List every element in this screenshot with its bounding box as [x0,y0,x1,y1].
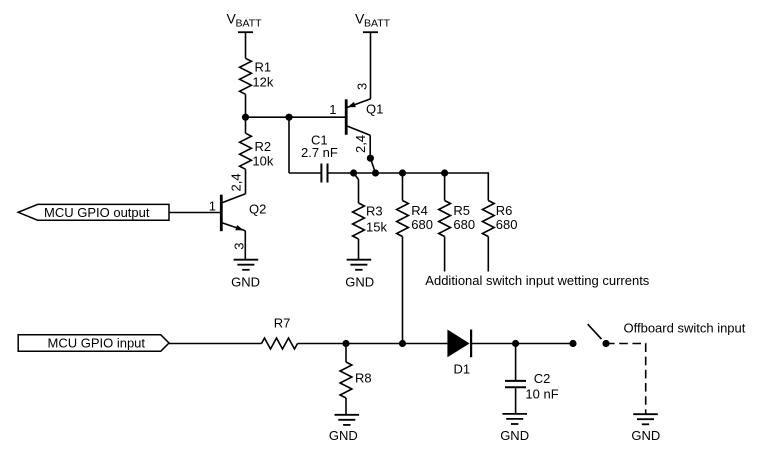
node switch left terminal [569,340,576,347]
wire Q1 collector diagonal to bus [370,158,375,173]
node Q1 collector bend [367,155,374,162]
wire node to Q1 base [289,116,346,118]
svg-text:3: 3 [231,242,246,249]
svg-text:GND: GND [329,428,358,443]
svg-text:Additional switch input wettin: Additional switch input wetting currents [425,273,650,288]
svg-text:Q1: Q1 [366,102,383,117]
svg-text:Offboard switch input: Offboard switch input [624,321,746,336]
svg-text:R4: R4 [411,203,428,218]
svg-text:GND: GND [500,428,529,443]
svg-text:2,4: 2,4 [228,173,243,191]
node junction R8 [342,340,349,347]
svg-text:C2: C2 [534,371,551,386]
ground offboard [633,414,658,424]
svg-text:R3: R3 [366,204,383,219]
svg-text:R5: R5 [453,203,470,218]
diode D1 [447,330,471,358]
node junction bus R3 [350,169,357,176]
value label R5 680 [453,203,475,232]
wire node to C1 branch [246,116,290,118]
wire R7 to R8 node [298,343,347,345]
svg-text:15k: 15k [366,220,387,235]
wire Q1 collector down [369,135,371,158]
node switch right terminal [602,340,609,347]
power symbol VBATT right [363,32,378,99]
wire output tag to Q2 base [169,212,221,214]
svg-text:3: 3 [355,83,370,90]
resistor R1 [240,58,252,94]
resistor R3 [353,173,365,260]
resistor R4 [397,173,409,237]
transistor Q2 [221,194,245,231]
svg-text:R6: R6 [496,203,513,218]
wire C1 right lead to bus [329,172,354,174]
port tag MCU GPIO input [18,335,169,351]
wire R8 node to R4 node [346,343,403,345]
wire R4 down to input bus [402,237,404,344]
svg-text:1: 1 [209,199,216,214]
wire C1 branch down [288,117,290,173]
resistor R7 [262,338,298,349]
value label C2 10 nF [525,371,558,401]
capacitor C2 [505,344,526,414]
wire dashed switch to offboard [606,344,646,415]
value label R1 12k [252,60,273,90]
switch blade [588,324,602,339]
svg-text:1: 1 [329,102,336,117]
svg-text:R2: R2 [255,139,272,154]
svg-text:680: 680 [453,217,475,232]
resistor R2 [240,117,252,194]
wire C1 left lead [289,172,321,174]
svg-text:R8: R8 [355,370,372,385]
wire input tag to R7 [169,343,262,345]
capacitor C1 [321,164,327,183]
svg-text:D1: D1 [454,362,471,377]
svg-text:10k: 10k [252,154,273,169]
ground under R8 [335,415,360,425]
svg-text:BATT: BATT [364,18,391,30]
node junction C1 branch [285,114,292,121]
svg-text:10 nF: 10 nF [525,386,558,401]
resistor R8 [340,344,352,415]
svg-text:MCU GPIO output: MCU GPIO output [44,205,150,220]
svg-text:2.7 nF: 2.7 nF [301,145,338,160]
value label C1 2.7 nF [301,133,338,161]
svg-text:GND: GND [345,274,374,289]
wire C2 node to switch terminal [516,343,573,345]
ground under R3 [347,260,372,270]
resistor R6 [482,201,494,272]
node junction R4 bottom [399,340,406,347]
wire Q2 emitter down [244,231,246,260]
value label R3 15k [366,204,387,235]
node junction bus R5 [441,169,448,176]
node junction bus R4 [399,169,406,176]
wire D1 cathode to C2 node [471,343,515,345]
value label R6 680 [496,203,518,232]
power symbol VBATT left [238,32,253,58]
node junction R1/R2/base row [242,114,249,121]
node junction C2 [512,340,519,347]
wire bus R5 to R6 corner [445,173,489,201]
net label VBATT right [355,11,391,30]
resistor R5 [439,173,451,272]
svg-text:12k: 12k [252,75,273,90]
svg-text:BATT: BATT [236,18,263,30]
svg-text:MCU GPIO input: MCU GPIO input [48,335,146,350]
svg-text:680: 680 [411,217,433,232]
ground under C2 [502,414,527,424]
port tag MCU GPIO output [18,204,169,220]
svg-text:GND: GND [631,428,660,443]
svg-text:2,4: 2,4 [353,135,368,153]
value label R4 680 [411,203,433,232]
svg-text:GND: GND [231,274,260,289]
svg-text:680: 680 [496,217,518,232]
wire R4 node to D1 anode [403,343,448,345]
wire R1 bottom to node [245,94,247,117]
node junction bus Q1 collector [372,169,379,176]
svg-text:Q2: Q2 [249,202,266,217]
transistor Q1 [346,99,371,136]
svg-text:R1: R1 [255,60,272,75]
value label R2 10k [252,139,273,169]
wire bus R3 to R5 [354,172,445,174]
net label VBATT left [227,11,263,30]
svg-text:R7: R7 [274,316,291,331]
ground under Q2 [234,260,259,270]
